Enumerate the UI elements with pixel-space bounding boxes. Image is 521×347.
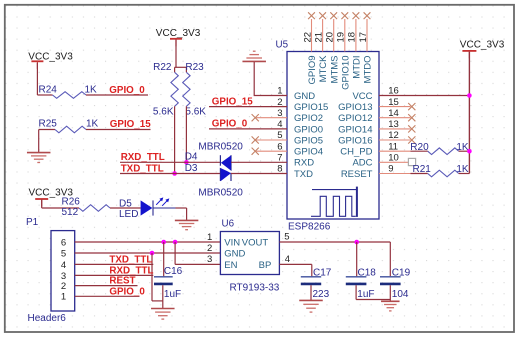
svg-text:RT9193-33: RT9193-33	[230, 283, 280, 294]
no-ERC square marker pin 10	[408, 158, 415, 165]
wire C19 bottom	[389, 285, 391, 301]
svg-text:VCC: VCC	[352, 91, 372, 102]
svg-text:3: 3	[207, 254, 212, 265]
U5 top pin 20 stub	[333, 19, 335, 52]
diode D4 MBR0520	[219, 155, 221, 181]
svg-text:5.6K: 5.6K	[153, 106, 174, 117]
svg-text:223: 223	[313, 289, 330, 300]
svg-text:TXD_TTL: TXD_TTL	[121, 163, 164, 174]
svg-text:LED: LED	[119, 209, 138, 220]
svg-text:MTMS: MTMS	[329, 56, 340, 84]
wire R24 to GPIO_0	[86, 94, 148, 96]
svg-text:6: 6	[61, 237, 66, 248]
svg-text:GND: GND	[224, 249, 245, 260]
svg-text:19: 19	[336, 32, 347, 43]
ground below R25	[27, 152, 51, 154]
svg-text:1uF: 1uF	[357, 289, 374, 300]
wire R25 to ground	[38, 130, 40, 153]
svg-text:BP: BP	[259, 260, 272, 271]
svg-text:4: 4	[285, 254, 290, 265]
junction VCC/pin16	[467, 93, 472, 98]
svg-text:VIN: VIN	[224, 237, 240, 248]
U5 top pin 19 stub	[344, 19, 346, 52]
svg-text:5: 5	[284, 231, 289, 242]
svg-text:GPIO0: GPIO0	[294, 124, 323, 135]
svg-text:2: 2	[207, 243, 212, 254]
svg-text:CH_PD: CH_PD	[340, 147, 372, 158]
ground (inverted) at U5 pin 1	[242, 60, 266, 62]
wire power stem	[175, 40, 177, 68]
U5 pin 14 no-connect stub	[379, 117, 411, 119]
wire ground stem to pin1	[253, 62, 255, 96]
svg-text:D3: D3	[185, 163, 198, 174]
wire BP to C17	[279, 263, 311, 265]
wire power stem to R26	[41, 200, 43, 209]
svg-text:Header6: Header6	[28, 313, 67, 324]
U5 pin 13 no-connect stub	[379, 128, 411, 130]
svg-text:R23: R23	[185, 62, 204, 73]
junction C16 branch	[161, 240, 166, 245]
no-connect X pin 13	[408, 125, 415, 132]
no-connect X top pin 22	[308, 12, 315, 19]
wire to C19	[389, 242, 391, 276]
svg-text:GPIO9: GPIO9	[307, 56, 318, 85]
diode D3 MBR0520	[221, 167, 231, 182]
svg-text:17: 17	[358, 32, 369, 43]
U5 pin 15 no-connect stub	[379, 106, 411, 108]
resistor R23	[185, 67, 187, 72]
svg-text:P1: P1	[26, 217, 39, 228]
wire R22 to TXD_TTL	[174, 106, 176, 173]
svg-text:C16: C16	[164, 266, 183, 277]
svg-text:VCC_3V3: VCC_3V3	[460, 39, 505, 50]
svg-text:2: 2	[61, 281, 66, 292]
svg-text:RXD: RXD	[294, 158, 314, 169]
ground after LED	[175, 219, 199, 221]
svg-text:TXD: TXD	[294, 169, 313, 180]
LED D5	[141, 200, 153, 215]
no-connect X top pin 17	[364, 12, 371, 19]
svg-text:RXD_TTL: RXD_TTL	[121, 152, 165, 163]
wire D3 to pin8 TXD	[231, 173, 287, 175]
svg-text:1: 1	[61, 292, 66, 303]
svg-text:R22: R22	[153, 62, 172, 73]
U5 pin 6 no-connect stub	[256, 150, 288, 152]
resistor R20	[411, 150, 428, 152]
white slash between D4/D3	[220, 166, 232, 172]
svg-text:GPIO13: GPIO13	[338, 102, 372, 113]
U5 pin 11 stub	[379, 150, 411, 152]
capacitor C16	[163, 242, 165, 276]
junction C18	[354, 240, 359, 245]
resistor R25	[39, 129, 55, 131]
wire P1.5 to U6 GND	[75, 252, 221, 254]
wire TXD_TTL to D3	[120, 173, 220, 175]
ground below C16	[151, 308, 175, 310]
resistor R24	[53, 92, 87, 99]
no-connect X pin 14	[408, 114, 415, 121]
svg-text:GPIO12: GPIO12	[338, 113, 372, 124]
svg-text:GPIO4: GPIO4	[294, 147, 323, 158]
svg-text:VCC_3V3: VCC_3V3	[156, 28, 201, 39]
U5 top pin 18 stub	[355, 19, 357, 52]
svg-text:GPIO2: GPIO2	[294, 113, 323, 124]
junction R22/TXD_TTL	[172, 171, 177, 176]
wire R21 to bus	[459, 173, 470, 175]
svg-text:22: 22	[302, 32, 313, 43]
svg-text:1: 1	[207, 232, 212, 243]
no-connect X top pin 19	[341, 12, 348, 19]
svg-text:18: 18	[347, 32, 358, 43]
wire R20 to bus	[459, 150, 470, 152]
U5 pin 5 no-connect stub	[256, 139, 288, 141]
wire to C18	[356, 242, 358, 276]
U5 pin 12 no-connect stub	[379, 139, 411, 141]
U5 top pin 22 stub	[311, 19, 313, 52]
svg-text:ESP8266: ESP8266	[288, 222, 331, 233]
ground below C17	[299, 299, 323, 301]
U5 antenna squarewave logo	[312, 189, 357, 191]
svg-text:R24: R24	[39, 84, 58, 95]
svg-text:5: 5	[61, 248, 66, 259]
wire R25 to GPIO_15	[86, 129, 151, 131]
resistor R26	[79, 205, 110, 212]
svg-text:21: 21	[313, 32, 324, 43]
U5 pin 10 stub	[379, 161, 408, 163]
wire splitter to R22/R23	[175, 66, 187, 68]
svg-text:TXD_TTL: TXD_TTL	[109, 255, 152, 266]
svg-text:R21: R21	[413, 164, 432, 175]
junction R23/RXD_TTL	[184, 160, 189, 165]
wire R26 to D5	[110, 207, 141, 209]
svg-text:U5: U5	[276, 40, 289, 51]
svg-text:U6: U6	[222, 219, 235, 230]
connector P1 Header6 body	[51, 231, 75, 311]
wire P1.4 TXD_TTL	[75, 263, 154, 265]
svg-text:1K: 1K	[85, 84, 98, 95]
op-amp U5 ESP8266 module body	[287, 52, 379, 220]
svg-text:GPIO14: GPIO14	[338, 124, 372, 135]
wire P1.6 to U6 VIN	[75, 241, 221, 243]
ground below C18/C19	[381, 300, 400, 302]
junction GND branch	[150, 251, 155, 256]
svg-text:MBR0520: MBR0520	[198, 188, 243, 199]
wire C16 to ground	[162, 285, 164, 308]
wire R23 to RXD_TTL	[185, 106, 187, 162]
svg-text:EN: EN	[224, 260, 237, 271]
wire VCC bus	[468, 52, 470, 174]
wire power stem to R24	[36, 63, 38, 95]
U5 pin 3 no-connect stub	[256, 117, 288, 119]
capacitor C17	[301, 276, 321, 278]
capacitor C18	[346, 276, 367, 278]
wire D4 to pin7 RXD	[231, 161, 287, 163]
resistor R22	[174, 67, 176, 72]
svg-text:ADC: ADC	[352, 158, 372, 169]
no-connect X top pin 21	[319, 12, 326, 19]
U5 top pin 17 stub	[366, 19, 368, 52]
wire pin16 VCC	[379, 95, 469, 97]
svg-text:104: 104	[392, 289, 409, 300]
U5 pin 9 stub	[379, 173, 411, 175]
svg-text:GPIO15: GPIO15	[294, 102, 328, 113]
svg-text:MBR0520: MBR0520	[198, 141, 243, 152]
wire RXD_TTL to D4	[120, 161, 220, 163]
svg-text:GPIO_15: GPIO_15	[110, 119, 151, 130]
svg-text:C17: C17	[313, 267, 332, 278]
svg-text:GND: GND	[294, 91, 315, 102]
svg-text:20: 20	[325, 32, 336, 43]
no-connect X pin 5	[252, 136, 259, 143]
svg-text:MTDI: MTDI	[352, 56, 363, 79]
svg-text:GPIO10: GPIO10	[340, 56, 351, 90]
wire GND down from P1.5	[151, 253, 153, 301]
svg-text:4: 4	[61, 260, 66, 271]
wire GPIO_0 to pin4	[209, 128, 287, 130]
wire P1.2 REST	[75, 285, 138, 287]
svg-text:GPIO_0: GPIO_0	[109, 85, 145, 96]
U5 top pin 21 stub	[322, 19, 324, 52]
svg-text:R25: R25	[39, 119, 58, 130]
wire C18 bottom	[355, 285, 357, 299]
svg-text:GPIO_0: GPIO_0	[109, 286, 145, 297]
svg-text:512: 512	[62, 207, 79, 218]
svg-text:R20: R20	[410, 142, 429, 153]
svg-text:VOUT: VOUT	[242, 237, 269, 248]
no-connect X pin 6	[252, 148, 259, 155]
svg-text:GPIO_0: GPIO_0	[212, 119, 248, 130]
svg-text:D4: D4	[185, 152, 198, 163]
svg-text:C18: C18	[358, 267, 377, 278]
svg-text:RESET: RESET	[341, 169, 373, 180]
svg-text:MTCK: MTCK	[318, 55, 329, 83]
svg-text:5.6K: 5.6K	[185, 106, 206, 117]
capacitor C19	[380, 276, 401, 278]
no-connect X pin 3	[252, 114, 259, 121]
no-connect X pin 15	[408, 103, 415, 110]
regulator U6 body	[220, 232, 279, 275]
wire P1.1 GPIO_0	[75, 295, 140, 297]
junction EN branch	[173, 240, 178, 245]
junction R20/bus	[467, 149, 472, 154]
svg-text:1K: 1K	[86, 119, 99, 130]
wire C17 to ground	[310, 285, 312, 300]
svg-text:GPIO_15: GPIO_15	[212, 96, 253, 107]
wire VOUT	[279, 241, 390, 243]
no-connect X pin 12	[408, 136, 415, 143]
svg-text:MTDO: MTDO	[363, 56, 374, 84]
svg-text:C19: C19	[392, 267, 411, 278]
no-connect X top pin 20	[330, 12, 337, 19]
resistor R21	[411, 173, 428, 175]
svg-text:1uF: 1uF	[164, 289, 181, 300]
svg-text:REST: REST	[109, 276, 135, 287]
no-connect X top pin 18	[353, 12, 360, 19]
wire P1.3 RXD_TTL	[75, 274, 154, 276]
svg-text:GPIO16: GPIO16	[338, 135, 372, 146]
wire pin1 GND	[254, 95, 287, 97]
wire GPIO_15 to pin2	[209, 106, 287, 108]
svg-text:GPIO5: GPIO5	[294, 135, 323, 146]
wire D5 to ground	[153, 207, 176, 209]
wire VIN to EN	[174, 242, 176, 264]
